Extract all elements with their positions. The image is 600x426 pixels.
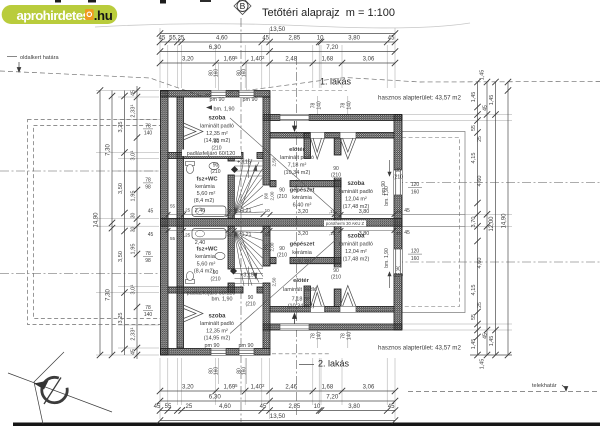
svg-text:kerámia: kerámia bbox=[292, 195, 313, 201]
door label wc2 upper bbox=[210, 163, 220, 176]
svg-text:45: 45 bbox=[154, 404, 161, 410]
interior dim row upper bbox=[166, 208, 402, 217]
svg-text:(10,34 m2): (10,34 m2) bbox=[284, 170, 311, 176]
interior wall eloter/gepeszet upper bbox=[270, 181, 276, 187]
svg-text:,10: ,10 bbox=[329, 231, 336, 236]
room eloter lower bbox=[283, 278, 317, 310]
interior dim row lower bbox=[166, 228, 402, 246]
roof slope diagonal upper bbox=[230, 118, 341, 217]
svg-text:1,21: 1,21 bbox=[242, 232, 252, 238]
top dimension row 3,20/1,69/1,40/2,48/1,68/3,06 bbox=[157, 55, 398, 66]
svg-text:1,45: 1,45 bbox=[480, 70, 486, 81]
svg-text:5,60 m²: 5,60 m² bbox=[197, 262, 216, 268]
interior wall szoba/wc horizontal upper bbox=[168, 153, 243, 159]
svg-text:55: 55 bbox=[471, 314, 477, 320]
svg-text:(17,48 m2): (17,48 m2) bbox=[343, 257, 370, 263]
svg-text:7,18 m²: 7,18 m² bbox=[292, 297, 311, 303]
scan artifact bottom black bar bbox=[13, 423, 600, 426]
svg-text:1,45: 1,45 bbox=[480, 359, 486, 370]
room gepeszet lower bbox=[290, 242, 315, 265]
svg-text:90: 90 bbox=[248, 295, 254, 301]
svg-text:oldalkert határa: oldalkert határa bbox=[20, 55, 59, 61]
svg-text:elötér: elötér bbox=[293, 278, 310, 284]
svg-text:(210: (210 bbox=[210, 169, 220, 175]
bathtub upper bbox=[192, 206, 226, 217]
svg-text:,10: ,10 bbox=[329, 209, 336, 214]
svg-text:78: 78 bbox=[145, 305, 151, 311]
svg-text:4,60: 4,60 bbox=[477, 176, 483, 187]
svg-text:fsz+WC: fsz+WC bbox=[196, 247, 218, 253]
roof eaves dashed right wing bottom bbox=[272, 353, 330, 355]
roof window bottom B (szoba) bbox=[340, 286, 356, 313]
scan artifact top marks bbox=[55, 0, 61, 3]
svg-text:porotherm 30 AKU Z: porotherm 30 AKU Z bbox=[326, 221, 365, 226]
svg-text:4,15: 4,15 bbox=[471, 285, 477, 296]
top extension lines bbox=[160, 28, 395, 88]
svg-text:,10: ,10 bbox=[263, 208, 270, 213]
svg-text:3,25: 3,25 bbox=[118, 313, 124, 324]
section marker B bbox=[234, 0, 251, 15]
svg-text:160: 160 bbox=[214, 69, 220, 78]
horizontal axis right upper bbox=[394, 182, 600, 184]
svg-text:90: 90 bbox=[279, 246, 285, 252]
svg-text:5,60 m²: 5,60 m² bbox=[197, 191, 216, 197]
svg-text:55: 55 bbox=[471, 125, 477, 131]
svg-text:45: 45 bbox=[404, 230, 410, 236]
room fsz+WC upper bbox=[194, 177, 219, 205]
roof window left knee wall lower bbox=[184, 305, 204, 322]
svg-text:45: 45 bbox=[483, 105, 489, 111]
svg-text:45: 45 bbox=[148, 209, 154, 215]
left dim line 3,25 / 3,50 chain bbox=[118, 91, 128, 356]
svg-text:45: 45 bbox=[260, 404, 267, 410]
apartment label 2. lakas bbox=[299, 359, 350, 369]
oldalkert hatara label bbox=[7, 55, 59, 72]
svg-text:4,60: 4,60 bbox=[216, 36, 228, 42]
roof eaves dashed right wing top bbox=[272, 90, 347, 92]
toilet lower bbox=[186, 272, 195, 284]
svg-text:12,04 m²: 12,04 m² bbox=[345, 197, 367, 203]
svg-text:55: 55 bbox=[165, 404, 172, 410]
svg-text:1,68: 1,68 bbox=[322, 385, 334, 391]
interior wall eloter/gepeszet lower bbox=[270, 257, 276, 263]
svg-text:kerámia: kerámia bbox=[195, 254, 216, 260]
roof window bottom A (eloter) bbox=[311, 286, 325, 313]
svg-text:45: 45 bbox=[483, 333, 489, 339]
svg-text:(210: (210 bbox=[210, 277, 220, 283]
svg-text:45: 45 bbox=[148, 232, 154, 238]
window top wall 1 (pm 90) bbox=[211, 91, 226, 98]
bottom window axis labels 80/160 bbox=[209, 358, 248, 384]
svg-text:1,21: 1,21 bbox=[242, 208, 252, 214]
svg-text:1,45: 1,45 bbox=[489, 95, 495, 106]
svg-text:90: 90 bbox=[279, 188, 285, 194]
svg-text:7,18 m²: 7,18 m² bbox=[288, 163, 307, 169]
svg-text:3,20: 3,20 bbox=[298, 209, 309, 215]
svg-text:13,50: 13,50 bbox=[270, 26, 286, 33]
svg-text:,25: ,25 bbox=[184, 208, 191, 213]
interior wall szoba/hall vertical x263 lower bbox=[263, 226, 270, 266]
interior stub wall eloter upper bbox=[304, 133, 311, 159]
svg-text:6,30: 6,30 bbox=[209, 44, 222, 51]
toilet upper bbox=[186, 162, 195, 174]
svg-text:45: 45 bbox=[131, 90, 137, 96]
svg-text:2,40: 2,40 bbox=[195, 208, 206, 214]
svg-text:12,35 m²: 12,35 m² bbox=[206, 329, 228, 335]
svg-text:120: 120 bbox=[411, 182, 420, 188]
svg-text:7,20: 7,20 bbox=[326, 44, 339, 51]
svg-text:3,80: 3,80 bbox=[348, 404, 360, 410]
svg-text:7,30: 7,30 bbox=[106, 289, 112, 301]
svg-text:3,50: 3,50 bbox=[118, 183, 124, 194]
svg-text:45: 45 bbox=[404, 208, 410, 214]
svg-text:3,50: 3,50 bbox=[118, 251, 124, 262]
bottom dimension row 45/55/25/4,60/45/2,85/10/3,80/45 bbox=[154, 404, 399, 414]
terrace outline right bbox=[402, 132, 465, 313]
svg-text:1,45: 1,45 bbox=[471, 339, 477, 350]
svg-text:(210: (210 bbox=[331, 173, 341, 179]
right dim chain 55/25/4,15/4,60/3,70 bbox=[471, 79, 483, 358]
svg-text:szoba: szoba bbox=[347, 181, 365, 187]
svg-text:90: 90 bbox=[213, 163, 219, 169]
svg-text:4,60: 4,60 bbox=[219, 404, 231, 410]
svg-text:160: 160 bbox=[242, 367, 248, 376]
party wall product label bbox=[324, 220, 366, 226]
svg-text:90: 90 bbox=[213, 270, 219, 276]
svg-text:2,85: 2,85 bbox=[289, 404, 301, 410]
roof eaves dashed outline left bbox=[28, 120, 161, 325]
svg-text:2,40: 2,40 bbox=[195, 240, 206, 246]
svg-text:2. lakás: 2. lakás bbox=[318, 359, 350, 369]
svg-text:gépészet: gépészet bbox=[290, 242, 315, 248]
right extension lines bbox=[403, 115, 512, 331]
svg-text:B: B bbox=[240, 1, 246, 11]
svg-text:padlásfeljáró 60/120: padlásfeljáró 60/120 bbox=[187, 151, 236, 157]
interior wall wc/stair vertical upper bbox=[228, 159, 234, 162]
svg-text:4,15: 4,15 bbox=[471, 153, 477, 164]
top dimension row 13,50 bbox=[157, 26, 398, 37]
room szoba lower-left bbox=[187, 291, 254, 350]
svg-text:laminált padló: laminált padló bbox=[280, 155, 314, 161]
svg-text:,10: ,10 bbox=[263, 232, 270, 237]
svg-text:6,30: 6,30 bbox=[209, 394, 222, 401]
svg-text:(210: (210 bbox=[277, 194, 287, 200]
svg-text:,25: ,25 bbox=[184, 233, 191, 238]
svg-text:90: 90 bbox=[214, 139, 220, 145]
svg-text:7,30: 7,30 bbox=[106, 144, 112, 156]
party wall (porotherm 30) bbox=[161, 219, 403, 227]
top dimension row 45/55/25/4,60/45/2,85/10/3,80/45 bbox=[157, 36, 398, 46]
telekhatar boundary bbox=[408, 383, 600, 392]
svg-text:45: 45 bbox=[262, 36, 269, 42]
svg-text:2,00: 2,00 bbox=[270, 191, 275, 200]
svg-text:45: 45 bbox=[159, 36, 166, 42]
door label szoba-right lower bbox=[393, 267, 403, 280]
svg-text:6,40 m²: 6,40 m² bbox=[293, 203, 312, 209]
door label eloter/szoba wall lower bbox=[329, 268, 343, 281]
svg-text:3,70: 3,70 bbox=[471, 217, 477, 228]
interior wall szoba/hall vertical x263 upper bbox=[263, 97, 270, 185]
svg-text:Tetőtéri alaprajz m = 1:100: Tetőtéri alaprajz m = 1:100 bbox=[262, 7, 395, 19]
roof window top A (eloter) bbox=[311, 133, 325, 160]
svg-text:pm 90: pm 90 bbox=[239, 343, 254, 349]
svg-text:kerámia: kerámia bbox=[292, 250, 313, 256]
window top wall 2 (pm 90) bbox=[239, 91, 254, 98]
window right wall upper (120/160) bbox=[394, 170, 402, 195]
door label eloter/szoba wall upper bbox=[329, 166, 343, 179]
paper fold faint line bbox=[95, 23, 470, 28]
svg-text:4,60: 4,60 bbox=[477, 258, 483, 269]
svg-text:hasznos alapterület: 43,57 m2: hasznos alapterület: 43,57 m2 bbox=[378, 345, 461, 352]
svg-text:kerámia: kerámia bbox=[195, 184, 216, 190]
right sill labels 120/160 bbox=[404, 182, 422, 262]
svg-text:3,20: 3,20 bbox=[182, 385, 194, 391]
svg-text:3,06: 3,06 bbox=[363, 57, 375, 63]
svg-text:(60: (60 bbox=[264, 192, 269, 199]
svg-text:2,00: 2,00 bbox=[270, 242, 275, 251]
right top 1,45 over boundary / 45 ticks bbox=[470, 70, 512, 370]
svg-text:25: 25 bbox=[477, 136, 483, 142]
stair lower bbox=[234, 232, 263, 287]
svg-text:30: 30 bbox=[131, 213, 137, 219]
svg-text:12,04 m²: 12,04 m² bbox=[345, 249, 367, 255]
svg-text:1,45: 1,45 bbox=[489, 336, 495, 347]
svg-text:140: 140 bbox=[144, 131, 153, 137]
knee wall top (right wing) bbox=[270, 133, 394, 139]
svg-text:fsz+WC: fsz+WC bbox=[196, 177, 218, 183]
svg-text:10: 10 bbox=[314, 404, 321, 410]
svg-text:laminált padló: laminált padló bbox=[339, 189, 373, 195]
svg-text:1,95: 1,95 bbox=[131, 244, 137, 255]
svg-text:140: 140 bbox=[144, 312, 153, 318]
bottom dimension row 6,30 / 7,20 bbox=[157, 394, 398, 405]
svg-text:(210: (210 bbox=[277, 253, 287, 259]
roof window top B (szoba) bbox=[340, 133, 356, 160]
door label gepeszet upper bbox=[277, 188, 287, 201]
svg-text:30: 30 bbox=[131, 227, 137, 233]
padlasfeljaro label upper bbox=[182, 150, 241, 158]
svg-text:,25: ,25 bbox=[184, 404, 193, 410]
svg-text:bm. 1,90: bm. 1,90 bbox=[212, 297, 233, 303]
svg-text:3,25: 3,25 bbox=[118, 122, 124, 133]
bottom dimension row 13,50 bbox=[157, 413, 398, 424]
svg-text:10: 10 bbox=[317, 36, 324, 42]
svg-text:45: 45 bbox=[131, 349, 137, 355]
vertical axis line B bbox=[240, 18, 242, 422]
svg-text:2,48: 2,48 bbox=[285, 57, 297, 63]
svg-text:7,20: 7,20 bbox=[326, 394, 339, 401]
svg-text:pm 90: pm 90 bbox=[381, 181, 387, 195]
svg-text:,10: ,10 bbox=[225, 232, 232, 237]
svg-text:aprohirdetes: aprohirdetes bbox=[17, 8, 90, 23]
svg-text:160: 160 bbox=[242, 69, 248, 78]
svg-text:+3,15: +3,15 bbox=[240, 273, 254, 279]
left sill labels 78/140 78/98 bbox=[143, 124, 153, 319]
door label wc lower bbox=[245, 295, 255, 308]
outer wall top (left block) bbox=[161, 91, 271, 98]
outer wall bottom (right wing) bbox=[263, 324, 402, 330]
door label gepeszet lower bbox=[277, 246, 287, 259]
bathtub lower bbox=[192, 229, 226, 240]
room gepeszet upper bbox=[290, 188, 315, 209]
svg-text:78: 78 bbox=[145, 251, 151, 257]
interior wall gepeszet/szoba vertical x334 bbox=[334, 138, 341, 155]
svg-text:(14,95 m2): (14,95 m2) bbox=[204, 336, 231, 342]
level marker lower +3,15 bbox=[230, 267, 254, 278]
svg-text:szoba: szoba bbox=[208, 116, 226, 122]
logo aprohirdetes.hu bbox=[2, 5, 118, 24]
svg-text:12,35 m²: 12,35 m² bbox=[206, 131, 228, 137]
svg-text:3,20: 3,20 bbox=[298, 231, 309, 237]
interior stub wall eloter lower bbox=[304, 286, 311, 307]
svg-text:25: 25 bbox=[477, 302, 483, 308]
window right wall lower (120/160) bbox=[394, 249, 402, 274]
horizontal axis left upper bbox=[0, 170, 160, 172]
svg-text:(210: (210 bbox=[393, 175, 403, 181]
svg-text:.hu: .hu bbox=[94, 8, 113, 23]
svg-text:(10,34 m2): (10,34 m2) bbox=[288, 304, 315, 310]
top dimension row 6,30 / 7,20 bbox=[157, 44, 398, 55]
outer wall top (right wing) bbox=[263, 115, 402, 121]
bottom dimension row 3,20/1,69/1,40/2,46/1,68/3,06 bbox=[157, 383, 398, 394]
left dim line 14,90 bbox=[94, 87, 104, 358]
stair upper bbox=[234, 159, 263, 214]
level marker upper +3,15 bbox=[231, 160, 251, 174]
outer wall left bbox=[161, 91, 169, 356]
room szoba lower-right bbox=[339, 234, 391, 289]
svg-text:14,90: 14,90 bbox=[502, 213, 508, 229]
bottom extension lines bbox=[160, 358, 395, 419]
door label wc upper bbox=[211, 139, 221, 152]
right dim line 14,90 bbox=[502, 79, 512, 358]
svg-text:laminált padló: laminált padló bbox=[200, 124, 234, 130]
svg-text:45: 45 bbox=[388, 404, 395, 410]
svg-text:90: 90 bbox=[395, 267, 401, 273]
svg-text:bm. 1,90: bm. 1,90 bbox=[214, 107, 235, 113]
roof slope diagonal lower bbox=[230, 236, 341, 334]
svg-text:(210: (210 bbox=[331, 275, 341, 281]
svg-text:(8,4 m2): (8,4 m2) bbox=[194, 269, 215, 275]
svg-text:(210: (210 bbox=[245, 302, 255, 308]
svg-text:+3,15: +3,15 bbox=[237, 160, 251, 166]
svg-text:pm 90: pm 90 bbox=[243, 97, 258, 103]
left extension lines bbox=[96, 91, 159, 356]
svg-text:laminált padló: laminált padló bbox=[339, 242, 373, 248]
interior wall wc/stair vertical lower bbox=[228, 226, 234, 269]
svg-text:bm. 1,90: bm. 1,90 bbox=[384, 248, 390, 268]
left dim line 45/2,33/3,0/1,95 chain bbox=[129, 86, 140, 359]
svg-text:elötér: elötér bbox=[289, 147, 306, 153]
svg-text:laminált padló: laminált padló bbox=[283, 287, 317, 293]
terrace dashed inner bbox=[402, 138, 460, 307]
svg-text:45: 45 bbox=[396, 209, 402, 214]
svg-text:78: 78 bbox=[145, 124, 151, 130]
svg-text:1,45: 1,45 bbox=[471, 92, 477, 103]
svg-text:14,90: 14,90 bbox=[94, 212, 100, 228]
svg-text:3,80: 3,80 bbox=[359, 209, 370, 215]
knee wall bottom (right wing) bbox=[270, 307, 394, 313]
door label szoba-right upper bbox=[393, 168, 403, 181]
room szoba upper-left bbox=[200, 97, 257, 144]
svg-text:55: 55 bbox=[170, 204, 176, 209]
svg-text:98: 98 bbox=[145, 258, 151, 264]
svg-text:90: 90 bbox=[333, 268, 339, 274]
top window axis labels 80/160 bbox=[209, 62, 248, 90]
window bottom wall 2 bbox=[239, 349, 254, 356]
north arrow bbox=[8, 352, 112, 424]
svg-text:2,46: 2,46 bbox=[285, 385, 297, 391]
svg-text:3,80: 3,80 bbox=[348, 36, 360, 42]
svg-text:90: 90 bbox=[333, 166, 339, 172]
svg-text:140: 140 bbox=[347, 101, 353, 110]
right dim line 12,00 bbox=[489, 79, 499, 358]
svg-text:(210: (210 bbox=[393, 273, 403, 279]
svg-text:pm 90: pm 90 bbox=[210, 97, 225, 103]
svg-text:45: 45 bbox=[388, 36, 395, 42]
svg-text:,10: ,10 bbox=[225, 208, 232, 213]
svg-text:13,50: 13,50 bbox=[270, 413, 286, 420]
svg-text:hasznos alapterület: 43,57 m2: hasznos alapterület: 43,57 m2 bbox=[378, 95, 461, 102]
outer wall bottom (left block) bbox=[161, 349, 271, 356]
sink upper bbox=[209, 162, 219, 169]
oldalkert hatara boundary dashed line bbox=[0, 71, 600, 96]
sink lower bbox=[215, 252, 225, 259]
svg-text:laminált padló: laminált padló bbox=[200, 321, 234, 327]
roof window left knee wall upper bbox=[184, 123, 204, 140]
svg-text:(17,48 m2): (17,48 m2) bbox=[343, 204, 370, 210]
svg-text:2,85: 2,85 bbox=[289, 36, 301, 42]
svg-text:140: 140 bbox=[347, 332, 353, 341]
svg-text:(210: (210 bbox=[211, 146, 221, 152]
svg-text:6,40 m²: 6,40 m² bbox=[293, 259, 312, 265]
svg-text:1. lakás: 1. lakás bbox=[320, 77, 352, 87]
svg-text:3,20: 3,20 bbox=[182, 57, 194, 63]
horizontal axis left lower bbox=[0, 273, 160, 275]
door label wc2 lower bbox=[210, 270, 220, 283]
left dim line 7,30 / 30 / 7,30 bbox=[106, 91, 116, 359]
svg-text:160: 160 bbox=[214, 367, 220, 376]
entrance door gap bottom (right wing) bbox=[280, 314, 309, 331]
svg-text:160: 160 bbox=[411, 256, 420, 262]
right wing sill labels 78/140 bbox=[311, 96, 353, 348]
window bottom wall 1 bbox=[211, 349, 226, 356]
svg-text:98: 98 bbox=[145, 185, 151, 191]
svg-text:(60: (60 bbox=[264, 243, 269, 250]
room szoba upper-right bbox=[339, 160, 391, 210]
svg-text:120: 120 bbox=[411, 249, 420, 255]
svg-text:1,68: 1,68 bbox=[322, 57, 334, 63]
svg-text:78: 78 bbox=[145, 178, 151, 184]
horizontal axis right lower bbox=[394, 261, 600, 263]
knee wall left bbox=[177, 97, 184, 348]
svg-text:55: 55 bbox=[170, 236, 176, 241]
svg-text:(8,4 m2): (8,4 m2) bbox=[194, 198, 215, 204]
interior wall szoba/wc horizontal lower bbox=[168, 287, 243, 293]
svg-text:2,50: 2,50 bbox=[272, 277, 277, 286]
vertical axis line x296 bbox=[296, 56, 298, 415]
svg-text:telekhatár: telekhatár bbox=[532, 383, 557, 389]
outer wall right bbox=[394, 115, 402, 331]
svg-text:90: 90 bbox=[395, 168, 401, 174]
svg-text:3,06: 3,06 bbox=[363, 385, 375, 391]
svg-text:szoba: szoba bbox=[347, 234, 365, 240]
room eloter upper bbox=[280, 147, 314, 176]
room fsz+WC lower bbox=[194, 247, 219, 275]
entrance door gap top (right wing) bbox=[280, 115, 309, 132]
svg-text:gépészet: gépészet bbox=[290, 188, 315, 194]
svg-text:pm 90: pm 90 bbox=[205, 343, 220, 349]
svg-text:szoba: szoba bbox=[208, 314, 226, 320]
